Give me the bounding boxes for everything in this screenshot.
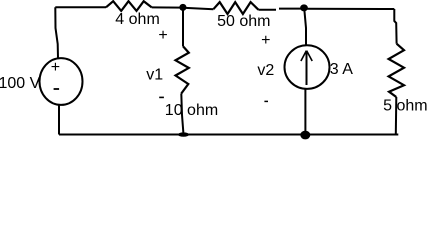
svg-text:3 A: 3 A: [330, 61, 353, 78]
wire right vertical down to 5ohm: [394, 9, 396, 44]
svg-text:v2: v2: [257, 62, 274, 79]
wire top-left horizontal (V source top to R 4ohm): [55, 6, 106, 8]
wire gap to node B: [279, 8, 304, 10]
voltage source 100V ellipse: [40, 58, 83, 105]
resistor 5 ohm zigzag: [389, 44, 404, 97]
svg-text:v1: v1: [146, 67, 163, 84]
svg-text:4 ohm: 4 ohm: [115, 11, 159, 28]
junction node B dot: [300, 4, 308, 11]
current source arrow head: [301, 51, 312, 61]
resistor 4 ohm zigzag: [106, 1, 152, 11]
wire 10ohm down to bottom node C: [181, 94, 183, 135]
resistor 50 ohm zigzag: [213, 2, 258, 14]
junction node C dot: [178, 132, 189, 136]
wire current source bottom to node D: [304, 89, 306, 134]
junction node D dot: [300, 131, 310, 140]
current source 3A circle: [285, 45, 330, 89]
resistor 10 ohm zigzag: [176, 46, 189, 93]
svg-text:50 ohm: 50 ohm: [217, 13, 270, 30]
wire left vertical (corner down to V source): [55, 7, 58, 58]
svg-text:10 ohm: 10 ohm: [165, 102, 218, 119]
wire 5ohm to bottom-right corner: [395, 97, 398, 135]
svg-text:+: +: [261, 32, 270, 49]
wire V source bottom stem: [58, 106, 60, 135]
junction node A dot: [179, 4, 186, 11]
label - for v2: [264, 100, 268, 102]
wire 50ohm to gap: [258, 9, 276, 11]
wire 4ohm to node A: [152, 6, 183, 8]
label - for v1: [159, 96, 164, 98]
wire node A down to 10ohm: [182, 7, 184, 46]
svg-text:100 V: 100 V: [0, 75, 41, 92]
svg-text:5 ohm: 5 ohm: [383, 97, 427, 114]
current source arrow shaft: [306, 51, 308, 85]
svg-text:+: +: [158, 27, 167, 44]
label - inside voltage source: [54, 88, 60, 90]
wire node B down to current source: [304, 8, 306, 45]
wire bottom rail: [59, 134, 398, 136]
svg-text:+: +: [51, 59, 60, 76]
wire node A to 50ohm: [183, 8, 213, 10]
wire node B to top-right corner: [304, 8, 394, 10]
